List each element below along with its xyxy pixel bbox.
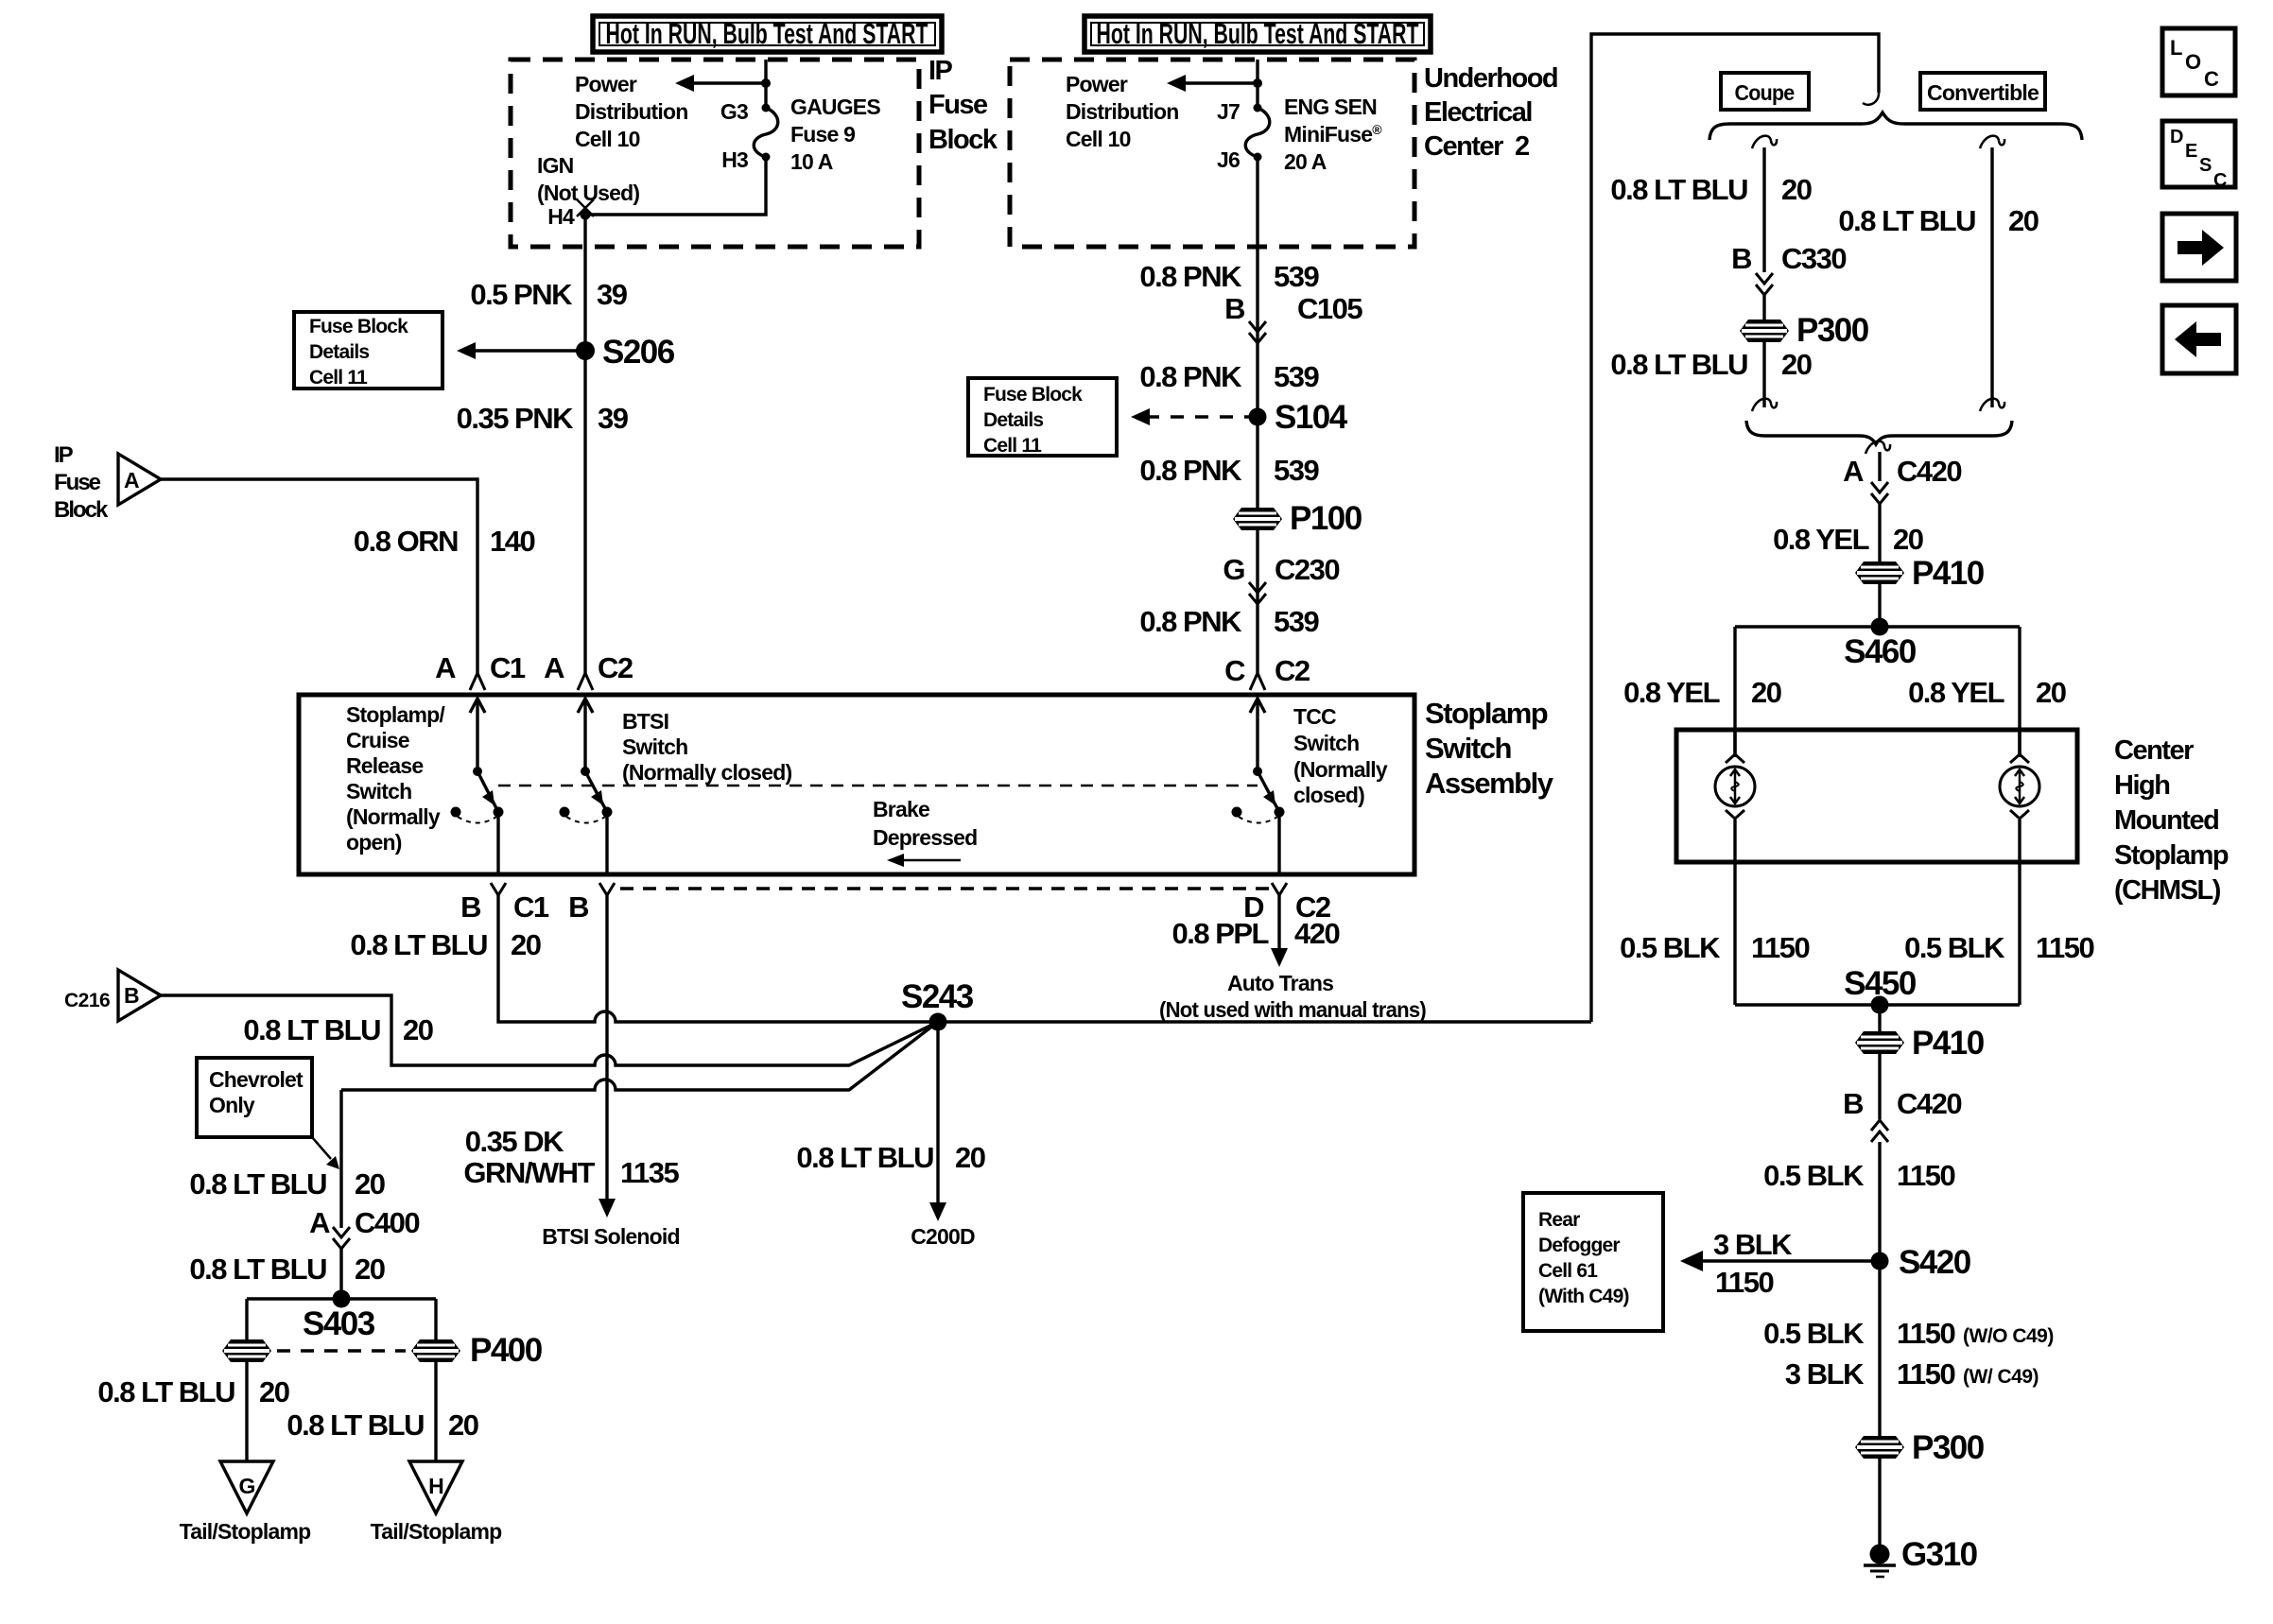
svg-text:Tail/Stoplamp: Tail/Stoplamp bbox=[180, 1519, 311, 1544]
svg-text:0.8 YEL: 0.8 YEL bbox=[1773, 523, 1869, 556]
wire: Chevrolet branch to S243 (with hop) bbox=[341, 1022, 938, 1090]
dashed line between grommets bbox=[277, 1349, 406, 1352]
svg-text:0.8 PNK: 0.8 PNK bbox=[1139, 260, 1242, 293]
svg-text:Brake: Brake bbox=[873, 797, 929, 821]
wire C420 down to S420 bbox=[1878, 1142, 1881, 1437]
svg-text:Fuse 9: Fuse 9 bbox=[790, 122, 855, 147]
svg-text:20: 20 bbox=[1751, 676, 1781, 709]
svg-text:Switch: Switch bbox=[1425, 732, 1511, 765]
connector B C1 (below box) bbox=[460, 883, 549, 924]
wire: J6 down to switch C2 entry (x=1330) bbox=[1256, 157, 1258, 673]
svg-text:C105: C105 bbox=[1297, 292, 1362, 325]
svg-text:0.8 PNK: 0.8 PNK bbox=[1139, 605, 1242, 638]
svg-text:Distribution: Distribution bbox=[1066, 99, 1178, 124]
switch: BTSI bbox=[560, 699, 613, 874]
wire+triangle G Tail/Stoplamp bbox=[180, 1362, 311, 1544]
svg-text:C200D: C200D bbox=[911, 1224, 975, 1249]
connector B (BTSI below box) bbox=[568, 883, 615, 924]
svg-text:20: 20 bbox=[1781, 173, 1812, 206]
svg-text:20 A: 20 A bbox=[1284, 149, 1327, 174]
S460 split loop bbox=[1735, 627, 2020, 757]
svg-text:Cruise: Cruise bbox=[346, 728, 409, 752]
Convertible branch wire bbox=[1980, 136, 2004, 411]
wire: H3 to H4 bbox=[581, 157, 767, 220]
dashed box: IP Fuse Block bbox=[511, 60, 919, 247]
legend box LOC bbox=[2162, 28, 2235, 95]
label 0.5 BLK 1150 (right) bbox=[1904, 931, 2093, 964]
svg-text:Electrical: Electrical bbox=[1424, 97, 1532, 128]
svg-text:Stoplamp: Stoplamp bbox=[2114, 840, 2229, 871]
svg-text:Center 2: Center 2 bbox=[1424, 131, 1529, 162]
svg-text:C420: C420 bbox=[1897, 1087, 1961, 1120]
svg-text:D: D bbox=[2170, 127, 2183, 147]
svg-text:C: C bbox=[1224, 654, 1245, 687]
connector A C1 bbox=[435, 651, 526, 690]
wire below P300 to bottom brace bbox=[1752, 342, 1777, 411]
box Fuse Block Details Cell 11 (right) bbox=[968, 378, 1117, 457]
svg-text:420: 420 bbox=[1294, 917, 1339, 950]
label Auto Trans (Not used with manual trans) bbox=[1159, 971, 1426, 1022]
label 0.8 LT BLU 20 (C216 wire) bbox=[243, 1013, 432, 1046]
connector D C2 (below box) bbox=[1243, 883, 1330, 924]
Coupe branch wire bbox=[1752, 136, 1777, 320]
label Power Distribution Cell 10 (right box) bbox=[1066, 72, 1178, 151]
svg-text:L: L bbox=[2170, 36, 2182, 60]
connector A C420 bbox=[1843, 455, 1961, 488]
svg-text:G3: G3 bbox=[720, 99, 748, 124]
label 0.8 PPL 420 bbox=[1172, 917, 1340, 950]
svg-text:P300: P300 bbox=[1912, 1429, 1985, 1466]
svg-text:Mounted: Mounted bbox=[2114, 805, 2218, 836]
svg-text:(With C49): (With C49) bbox=[1538, 1286, 1629, 1307]
box Coupe bbox=[1721, 73, 1809, 110]
connector P400 grommet bbox=[411, 1332, 543, 1369]
svg-text:(Normally closed): (Normally closed) bbox=[622, 760, 792, 785]
svg-text:1150: 1150 bbox=[1751, 931, 1810, 964]
svg-text:C420: C420 bbox=[1897, 455, 1961, 488]
svg-text:539: 539 bbox=[1274, 454, 1319, 487]
svg-text:Center: Center bbox=[2114, 735, 2194, 766]
connector C C2 bbox=[1224, 654, 1310, 690]
svg-text:C1: C1 bbox=[490, 651, 526, 684]
svg-text:Power: Power bbox=[575, 72, 637, 96]
label Stoplamp Switch Assembly bbox=[1425, 697, 1554, 800]
svg-text:IP: IP bbox=[54, 442, 74, 468]
junction S403 bbox=[303, 1290, 375, 1343]
dashed link line between switches bbox=[498, 785, 1258, 787]
fuse ENG SEN MiniFuse 20A bbox=[1245, 104, 1270, 162]
junction S206 bbox=[576, 334, 675, 371]
box Chevrolet Only bbox=[197, 1058, 312, 1137]
svg-text:39: 39 bbox=[598, 402, 629, 435]
svg-text:O: O bbox=[2185, 50, 2201, 74]
svg-text:0.8 LT BLU: 0.8 LT BLU bbox=[97, 1375, 234, 1408]
svg-text:E: E bbox=[2185, 141, 2197, 162]
label 0.5 BLK 1150 (above S420) bbox=[1763, 1159, 1954, 1192]
switch: TCC bbox=[1232, 699, 1285, 874]
svg-text:Switch: Switch bbox=[1293, 731, 1359, 755]
svg-text:0.8 PPL: 0.8 PPL bbox=[1172, 917, 1269, 950]
svg-text:S460: S460 bbox=[1844, 633, 1917, 670]
label 0.8 LT BLU 20 (Coupe upper) bbox=[1610, 173, 1811, 206]
svg-text:C230: C230 bbox=[1275, 553, 1339, 586]
wire: top stub into right dashed box bbox=[1256, 60, 1258, 108]
svg-text:P410: P410 bbox=[1912, 555, 1985, 592]
svg-text:Fuse Block: Fuse Block bbox=[983, 384, 1083, 406]
switch: Stoplamp/Cruise Release bbox=[451, 699, 504, 874]
box Fuse Block Details Cell 11 (left) bbox=[294, 312, 442, 389]
wire: D C2 to Auto Trans arrow bbox=[1271, 894, 1288, 967]
label 0.5 BLK 1150 (W/O C49) bbox=[1763, 1317, 2054, 1350]
dashed arrow from S104 to Fuse Block Details bbox=[1131, 408, 1250, 425]
svg-text:20: 20 bbox=[511, 928, 541, 961]
svg-text:Cell 10: Cell 10 bbox=[1066, 127, 1131, 151]
svg-text:39: 39 bbox=[597, 278, 628, 311]
svg-text:Cell 10: Cell 10 bbox=[575, 127, 640, 151]
svg-text:BTSI Solenoid: BTSI Solenoid bbox=[542, 1224, 680, 1249]
svg-text:(Not used with manual trans): (Not used with manual trans) bbox=[1159, 997, 1426, 1022]
label ENG SEN MiniFuse 20 A bbox=[1284, 95, 1382, 174]
label Stoplamp/Cruise Release Switch (Normally open) bbox=[346, 702, 445, 855]
svg-text:G: G bbox=[238, 1474, 254, 1498]
arrow to Rear Defogger bbox=[1680, 1228, 1880, 1299]
svg-text:Fuse Block: Fuse Block bbox=[309, 316, 408, 337]
svg-text:20: 20 bbox=[2008, 204, 2039, 237]
grommet left (S403 branch) bbox=[222, 1339, 271, 1362]
svg-text:1150: 1150 bbox=[1897, 1317, 1955, 1350]
svg-text:0.8 LT BLU: 0.8 LT BLU bbox=[1610, 348, 1747, 381]
label Underhood Electrical Center 2 bbox=[1424, 63, 1557, 162]
svg-text:1135: 1135 bbox=[620, 1156, 680, 1189]
svg-text:IP: IP bbox=[928, 56, 953, 86]
svg-text:0.5 BLK: 0.5 BLK bbox=[1620, 931, 1721, 964]
dashed line below switch box bbox=[620, 887, 1269, 890]
svg-text:Power: Power bbox=[1066, 72, 1128, 96]
svg-text:20: 20 bbox=[355, 1167, 385, 1201]
svg-text:GAUGES: GAUGES bbox=[790, 95, 880, 119]
svg-text:0.5 BLK: 0.5 BLK bbox=[1763, 1159, 1865, 1192]
label 0.8 LT BLU 20 (left tail) bbox=[97, 1375, 288, 1408]
svg-text:B: B bbox=[1731, 242, 1751, 275]
svg-text:20: 20 bbox=[2036, 676, 2066, 709]
label Brake Depressed with arrow bbox=[873, 797, 977, 867]
svg-text:TCC: TCC bbox=[1293, 704, 1336, 729]
svg-text:Release: Release bbox=[346, 753, 423, 778]
svg-text:S403: S403 bbox=[303, 1305, 375, 1342]
connector P300 (lower) bbox=[1855, 1429, 1985, 1466]
label 0.8 YEL 20 (right lamp) bbox=[1908, 676, 2066, 709]
svg-text:S420: S420 bbox=[1899, 1244, 1971, 1281]
svg-text:(Normally: (Normally bbox=[1293, 757, 1388, 782]
wire: BTSI solenoid drop bbox=[542, 894, 680, 1249]
svg-text:Depressed: Depressed bbox=[873, 825, 977, 850]
svg-text:Cell 61: Cell 61 bbox=[1538, 1260, 1598, 1282]
svg-text:A: A bbox=[435, 651, 456, 684]
svg-text:Coupe: Coupe bbox=[1735, 80, 1795, 105]
svg-text:S104: S104 bbox=[1275, 399, 1348, 436]
label 0.8 LT BLU 20 (Convertible) bbox=[1838, 204, 2038, 237]
svg-text:0.8 LT BLU: 0.8 LT BLU bbox=[243, 1013, 380, 1046]
svg-text:S243: S243 bbox=[901, 978, 974, 1015]
svg-text:1150: 1150 bbox=[1715, 1266, 1774, 1299]
svg-text:0.8 ORN: 0.8 ORN bbox=[354, 525, 458, 558]
svg-text:Hot In RUN, Bulb Test And STAR: Hot In RUN, Bulb Test And START bbox=[606, 17, 928, 50]
svg-text:open): open) bbox=[346, 830, 402, 855]
svg-text:C1: C1 bbox=[513, 890, 549, 924]
label TCC Switch (Normally closed) bbox=[1293, 704, 1388, 807]
svg-text:539: 539 bbox=[1274, 360, 1319, 393]
svg-text:A: A bbox=[309, 1206, 330, 1239]
CHMSL box bbox=[1676, 730, 2077, 862]
svg-text:0.8 LT BLU: 0.8 LT BLU bbox=[189, 1253, 326, 1286]
connector P410 (upper) bbox=[1855, 555, 1985, 592]
label 0.8 PNK 539 (1) bbox=[1139, 360, 1319, 393]
svg-text:20: 20 bbox=[1781, 348, 1812, 381]
svg-text:1150: 1150 bbox=[1897, 1357, 1955, 1391]
svg-text:Auto Trans: Auto Trans bbox=[1227, 971, 1333, 995]
label Center High Mounted Stoplamp (CHMSL) bbox=[2114, 735, 2229, 906]
header box: Hot In RUN, Bulb Test And START (right) bbox=[1084, 16, 1431, 52]
label IP Fuse Block (right of left dashed box) bbox=[928, 56, 998, 155]
label 0.8 LT BLU 20 (B C1) bbox=[350, 928, 540, 961]
svg-text:(CHMSL): (CHMSL) bbox=[2114, 875, 2221, 906]
legend box left arrow bbox=[2162, 305, 2236, 373]
wire: top stub into left dashed box bbox=[764, 60, 767, 108]
arrow to Power Distribution (left box) bbox=[675, 75, 771, 92]
label 0.8 LT BLU 20 (right tail) bbox=[286, 1408, 477, 1442]
svg-text:H: H bbox=[428, 1474, 443, 1498]
svg-text:0.8 LT BLU: 0.8 LT BLU bbox=[1610, 173, 1747, 206]
svg-text:MiniFuse®: MiniFuse® bbox=[1284, 122, 1382, 147]
svg-text:Only: Only bbox=[209, 1093, 255, 1117]
svg-text:0.5 PNK: 0.5 PNK bbox=[470, 278, 573, 311]
label 0.8 YEL 20 (left lamp) bbox=[1623, 676, 1781, 709]
label 0.8 LT BLU 20 (above C400) bbox=[189, 1167, 384, 1201]
svg-text:Switch: Switch bbox=[622, 734, 687, 759]
svg-text:C330: C330 bbox=[1781, 242, 1846, 275]
svg-text:20: 20 bbox=[955, 1141, 985, 1174]
svg-text:P100: P100 bbox=[1290, 500, 1362, 537]
svg-text:P300: P300 bbox=[1796, 312, 1869, 349]
label BTSI Switch (Normally closed) bbox=[622, 709, 792, 785]
svg-text:C400: C400 bbox=[355, 1206, 419, 1239]
wire: S243 down to C200D bbox=[911, 1022, 975, 1249]
connector B C420 (upward) bbox=[1843, 1054, 1961, 1142]
svg-text:Hot In RUN, Bulb Test And STAR: Hot In RUN, Bulb Test And START bbox=[1097, 17, 1419, 50]
wire: tall right rectangle from S243 up and over bbox=[1591, 34, 1879, 1022]
svg-text:140: 140 bbox=[490, 525, 534, 558]
svg-text:Stoplamp: Stoplamp bbox=[1425, 697, 1548, 730]
svg-text:Switch: Switch bbox=[346, 779, 411, 803]
svg-text:0.5 BLK: 0.5 BLK bbox=[1763, 1317, 1865, 1350]
svg-text:539: 539 bbox=[1274, 260, 1319, 293]
junction S450 bbox=[1735, 965, 2020, 1014]
lamp left (CHMSL) bbox=[1715, 730, 1755, 1005]
svg-text:G: G bbox=[1223, 553, 1244, 586]
wire break squiggle (top) bbox=[1863, 91, 1879, 105]
label IGN (Not Used) bbox=[537, 153, 639, 205]
label IP Fuse Block bbox=[54, 442, 109, 523]
junction S243 bbox=[901, 978, 974, 1031]
svg-text:Tail/Stoplamp: Tail/Stoplamp bbox=[371, 1519, 502, 1544]
svg-text:20: 20 bbox=[355, 1253, 385, 1286]
C216 source triangle B bbox=[64, 970, 161, 1021]
svg-text:Fuse: Fuse bbox=[54, 470, 101, 495]
svg-text:B: B bbox=[568, 890, 588, 924]
legend box DESC bbox=[2162, 121, 2235, 191]
svg-text:B: B bbox=[1224, 292, 1244, 325]
svg-text:20: 20 bbox=[448, 1408, 478, 1442]
svg-text:A: A bbox=[124, 468, 139, 492]
wire: B C1 down and right to S243 line bbox=[498, 894, 1591, 1022]
svg-text:High: High bbox=[2114, 770, 2169, 801]
svg-text:20: 20 bbox=[1893, 523, 1923, 556]
svg-text:0.5 BLK: 0.5 BLK bbox=[1904, 931, 2005, 964]
label Power Distribution Cell 10 (left box) bbox=[575, 72, 687, 151]
label 0.8 ORN 140 bbox=[354, 525, 535, 558]
svg-text:(Normally: (Normally bbox=[346, 804, 441, 829]
wire: C216 B right, down, to S243 (with hop) bbox=[161, 995, 938, 1065]
label 0.5 BLK 1150 (left) bbox=[1620, 931, 1809, 964]
svg-text:Details: Details bbox=[309, 341, 369, 363]
left tail branch wire bbox=[245, 1299, 248, 1339]
label 0.8 LT BLU 20 (Coupe lower) bbox=[1610, 348, 1811, 381]
wire: S403 tee bbox=[247, 1297, 436, 1300]
svg-text:J6: J6 bbox=[1217, 147, 1240, 172]
svg-text:C: C bbox=[2204, 67, 2219, 91]
label 0.8 PNK 539 (0) bbox=[1139, 260, 1319, 293]
svg-text:0.8 LT BLU: 0.8 LT BLU bbox=[350, 928, 487, 961]
svg-text:B: B bbox=[460, 890, 480, 924]
junction S420 bbox=[1871, 1244, 1971, 1281]
label 0.8 LT BLU 20 (C200D wire) bbox=[796, 1141, 984, 1174]
wire: right tail branch upper bbox=[434, 1299, 437, 1339]
svg-text:G310: G310 bbox=[1901, 1536, 1978, 1573]
svg-text:3 BLK: 3 BLK bbox=[1713, 1228, 1793, 1261]
svg-text:C: C bbox=[2213, 170, 2227, 191]
svg-text:Details: Details bbox=[983, 409, 1043, 431]
arrow from S206 to Fuse Block Details bbox=[457, 342, 585, 359]
svg-text:B: B bbox=[124, 983, 139, 1008]
arrow from Chevrolet Only box to wire bbox=[312, 1137, 339, 1169]
connector B C105 bbox=[1224, 292, 1362, 343]
svg-text:(W/O C49): (W/O C49) bbox=[1963, 1325, 2054, 1347]
svg-text:closed): closed) bbox=[1293, 783, 1364, 807]
svg-text:1150: 1150 bbox=[2036, 931, 2094, 964]
wire from triangle A to switch C1 entry bbox=[161, 479, 477, 673]
svg-text:ENG SEN: ENG SEN bbox=[1284, 95, 1377, 119]
svg-text:P400: P400 bbox=[470, 1332, 543, 1369]
svg-text:Chevrolet: Chevrolet bbox=[209, 1067, 304, 1092]
legend box right arrow bbox=[2162, 214, 2236, 281]
svg-text:H3: H3 bbox=[721, 147, 748, 172]
junction S460 bbox=[1844, 618, 1917, 671]
connector B C330 bbox=[1731, 242, 1846, 275]
label 0.35 PNK 39 bbox=[457, 402, 629, 435]
svg-text:0.8 LT BLU: 0.8 LT BLU bbox=[1838, 204, 1975, 237]
svg-text:IGN: IGN bbox=[537, 153, 574, 178]
svg-text:Cell 11: Cell 11 bbox=[983, 435, 1042, 457]
not-used X mark at H4 bbox=[577, 199, 594, 216]
svg-text:0.35 PNK: 0.35 PNK bbox=[457, 402, 575, 435]
svg-text:A: A bbox=[544, 651, 564, 684]
svg-text:B: B bbox=[1843, 1087, 1863, 1120]
svg-text:0.8 LT BLU: 0.8 LT BLU bbox=[286, 1408, 424, 1442]
label 0.5 PNK 39 bbox=[470, 278, 627, 311]
lamp right (CHMSL) bbox=[2000, 730, 2039, 1005]
svg-text:0.8 PNK: 0.8 PNK bbox=[1139, 454, 1242, 487]
svg-text:S206: S206 bbox=[602, 334, 675, 371]
svg-text:Assembly: Assembly bbox=[1425, 767, 1554, 800]
under-brace bbox=[1746, 421, 2012, 444]
ground G310 bbox=[1864, 1536, 1978, 1577]
wire below under-brace bbox=[1865, 441, 1890, 562]
Stoplamp Switch Assembly box bbox=[299, 695, 1414, 874]
svg-text:C2: C2 bbox=[598, 651, 633, 684]
svg-text:Block: Block bbox=[928, 125, 998, 155]
wire P410 to S460 bbox=[1878, 584, 1881, 627]
svg-text:0.8 LT BLU: 0.8 LT BLU bbox=[796, 1141, 933, 1174]
connector P300 (Coupe branch) bbox=[1740, 312, 1869, 349]
svg-text:(W/ C49): (W/ C49) bbox=[1963, 1366, 2039, 1388]
svg-text:S: S bbox=[2199, 155, 2212, 176]
label 0.8 LT BLU 20 (below C400) bbox=[189, 1253, 384, 1286]
svg-text:20: 20 bbox=[259, 1375, 289, 1408]
connector A C400 bbox=[309, 1206, 419, 1249]
connector G C230 bbox=[1223, 553, 1339, 604]
svg-text:Stoplamp/: Stoplamp/ bbox=[346, 702, 445, 727]
svg-text:Cell 11: Cell 11 bbox=[309, 367, 368, 389]
label 3 BLK 1150 (W/ C49) bbox=[1785, 1357, 2039, 1391]
svg-text:0.35 DK: 0.35 DK bbox=[465, 1125, 564, 1158]
svg-text:Underhood: Underhood bbox=[1424, 63, 1557, 94]
svg-text:Convertible: Convertible bbox=[1927, 80, 2039, 105]
label 0.35 DK GRN/WHT 1135 bbox=[463, 1125, 679, 1189]
svg-text:P410: P410 bbox=[1912, 1025, 1985, 1062]
svg-text:10 A: 10 A bbox=[790, 149, 833, 174]
connector P410 (lower) bbox=[1855, 1025, 1985, 1062]
header box: Hot In RUN, Bulb Test And START (left) bbox=[593, 16, 942, 52]
svg-text:C2: C2 bbox=[1275, 654, 1310, 687]
svg-text:0.8 LT BLU: 0.8 LT BLU bbox=[189, 1167, 326, 1201]
svg-text:Distribution: Distribution bbox=[575, 99, 687, 124]
connector A C2 bbox=[544, 651, 633, 690]
over-brace (Coupe/Convertible) bbox=[1709, 112, 2082, 140]
svg-text:3 BLK: 3 BLK bbox=[1785, 1357, 1865, 1391]
label GAUGES Fuse 9 10 A bbox=[790, 95, 880, 174]
wire: H4 down to switch C2 (x=619) bbox=[583, 215, 586, 673]
svg-text:1150: 1150 bbox=[1897, 1159, 1955, 1192]
svg-text:Block: Block bbox=[54, 497, 109, 523]
svg-text:0.8 YEL: 0.8 YEL bbox=[1623, 676, 1720, 709]
svg-text:20: 20 bbox=[403, 1013, 433, 1046]
connector P100 bbox=[1233, 500, 1362, 537]
svg-text:539: 539 bbox=[1274, 605, 1319, 638]
svg-text:C216: C216 bbox=[64, 990, 110, 1011]
svg-text:0.8 PNK: 0.8 PNK bbox=[1139, 360, 1242, 393]
IP Fuse Block source triangle A bbox=[118, 454, 161, 505]
svg-text:A: A bbox=[1843, 455, 1864, 488]
label 0.8 PNK 539 (4) bbox=[1139, 605, 1319, 638]
fuse GAUGES Fuse 9 10A bbox=[754, 104, 778, 162]
svg-text:BTSI: BTSI bbox=[622, 709, 668, 734]
wire: Chevrolet branch down to S403 bbox=[339, 1090, 342, 1228]
svg-text:H4: H4 bbox=[547, 204, 575, 229]
arrow to Power Distribution (right box) bbox=[1167, 75, 1262, 92]
label 0.8 PNK 539 (2) bbox=[1139, 454, 1319, 487]
svg-text:(Not Used): (Not Used) bbox=[537, 181, 639, 205]
svg-text:GRN/WHT: GRN/WHT bbox=[463, 1156, 595, 1189]
